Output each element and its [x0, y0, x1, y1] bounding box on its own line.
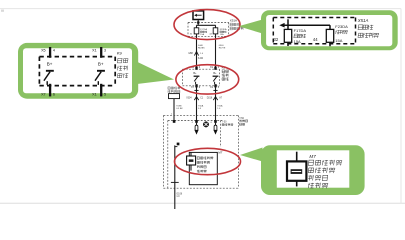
callout K9 left contact: [46, 70, 54, 72]
svg-text:SJ40: SJ40: [198, 58, 204, 60]
callout K9 pin X5/4: [49, 47, 51, 58]
svg-text:X7: X7: [41, 93, 46, 97]
page frame right rule: [400, 9, 402, 204]
pin square on fuse box top edge: [197, 21, 199, 23]
K9 bottom pin X7/6: [195, 84, 197, 87]
wire fuse F23DA down to K9: [215, 34, 217, 69]
svg-text:X5: X5: [41, 49, 46, 53]
svg-text:T-50: T-50: [222, 122, 227, 124]
headlamp switch label: [168, 86, 170, 88]
callout M7 solenoid core: [291, 169, 303, 174]
callout fuse bubble: [239, 20, 263, 34]
svg-text:RD/YE: RD/YE: [219, 48, 226, 50]
svg-text:B+: B+: [47, 61, 53, 66]
svg-text:5: 5: [104, 93, 106, 97]
svg-text:X1: X1: [92, 49, 97, 53]
connector D216/A7: [213, 97, 217, 101]
headlamp switch wire down: [173, 99, 175, 123]
M7 actuator solid box: [189, 152, 217, 184]
connector X304/C1: [194, 97, 198, 101]
dashed box K9 body control module: [183, 68, 220, 70]
right wire end arrow: [213, 130, 217, 135]
fuse F17DA: [194, 28, 199, 34]
K9 left relay contact: [194, 75, 200, 77]
callout K9 right contact: [97, 70, 105, 72]
svg-text:X51A: X51A: [357, 18, 369, 23]
svg-text:T-50: T-50: [239, 117, 244, 120]
right wire capsule connector: [215, 123, 217, 126]
callout M7 bubble: [240, 148, 263, 162]
highlight ellipse fuse area: [174, 10, 240, 40]
lamp symbol: [203, 122, 208, 127]
bus wire to both fuses: [196, 24, 215, 26]
ground wire down: [174, 145, 176, 209]
svg-text:B+: B+: [213, 72, 217, 75]
dashed box X51A instrument panel fuse block: [188, 22, 229, 24]
dashed box transmission assembly outer: [164, 114, 239, 116]
svg-text:F17DA: F17DA: [200, 28, 207, 31]
svg-text:F23DA: F23DA: [335, 24, 348, 29]
headlamp switch box: [169, 94, 180, 99]
highlight ellipse M7 area: [175, 148, 241, 174]
svg-text:15A: 15A: [335, 38, 342, 43]
wire from B+ box down: [197, 20, 199, 26]
svg-text:X51A: X51A: [230, 19, 237, 23]
left wire end arrow: [194, 130, 198, 135]
page frame bottom rule: [0, 202, 405, 204]
wire into fuse F17DA: [196, 25, 198, 28]
K9 top pin X1/3: [214, 67, 216, 70]
svg-text:32: 32: [274, 37, 279, 42]
K9 bottom pin X1/5: [214, 84, 216, 87]
callout fuse F17DA: [284, 29, 291, 42]
callout K9 dashed module box: [39, 56, 115, 58]
left wire capsule connector: [196, 123, 198, 126]
inline connector ticks: [194, 89, 198, 91]
svg-text:X304: X304: [186, 97, 192, 99]
svg-text:M7: M7: [309, 154, 316, 159]
pin on inner edge right: [214, 120, 217, 123]
svg-text:0.5 BK: 0.5 BK: [176, 108, 183, 110]
svg-text:GB8: GB8: [188, 53, 193, 55]
callout K9 pin X7/6: [49, 84, 51, 97]
svg-text:F23DA: F23DA: [220, 28, 227, 31]
svg-text:F17DA: F17DA: [294, 28, 307, 33]
svg-text:44: 44: [313, 37, 318, 42]
svg-text:K9: K9: [117, 50, 123, 55]
pin on inner edge left: [195, 120, 198, 123]
wire fuse F17DA down to K9: [196, 34, 198, 69]
M7 name text: [197, 156, 200, 158]
page corner mark: [1, 10, 4, 12]
svg-text:6: 6: [53, 93, 55, 97]
highlight ellipse K9 area: [176, 65, 239, 94]
svg-text:D216: D216: [207, 97, 213, 99]
fuse F23DA: [213, 28, 218, 34]
page frame top rule: [0, 8, 401, 10]
svg-text:3: 3: [104, 49, 106, 53]
svg-text:B+: B+: [193, 72, 197, 75]
wire into fuse F23DA: [215, 25, 217, 28]
wire K9 pin6 down: [196, 86, 198, 123]
svg-text:15A: 15A: [294, 39, 301, 44]
power feed B+ box: [193, 11, 204, 20]
callout fuse F23DA: [326, 29, 333, 42]
callout M7 solenoid box: [287, 161, 306, 180]
K9 right relay contact: [213, 75, 219, 77]
svg-text:M7: M7: [218, 151, 222, 155]
svg-text:T50A: T50A: [198, 104, 204, 107]
pin on inner edge wire a: [173, 120, 176, 123]
svg-text:X1: X1: [92, 93, 97, 97]
svg-text:B+: B+: [98, 61, 104, 66]
svg-text:T50A: T50A: [217, 104, 223, 107]
M7 wire through solenoid: [190, 152, 192, 170]
callout fuse dashed box: [273, 17, 355, 19]
callout bus wire with arrow: [283, 24, 330, 26]
callout M7 wire: [296, 152, 298, 187]
callout fuse F23DA drop: [329, 25, 331, 29]
callout K9 pin X1/5: [100, 84, 102, 97]
callout K9 pin X1/3: [100, 47, 102, 58]
svg-text:4: 4: [53, 49, 55, 53]
callout fuse F17DA stub: [287, 19, 289, 29]
dashed inner boundary: [168, 120, 222, 122]
callout K9 bubble: [137, 62, 174, 84]
splice tick: [171, 181, 179, 183]
splice GB8: [194, 51, 198, 55]
svg-text:G108: G108: [176, 193, 182, 195]
svg-text:RD/BK: RD/BK: [198, 48, 205, 50]
wire K9 pin5 down: [215, 86, 217, 123]
svg-text:15A: 15A: [200, 33, 204, 36]
node a marker: [177, 143, 180, 146]
callout M7 name lines: [308, 160, 314, 165]
svg-text:15A: 15A: [220, 33, 224, 36]
M7 solenoid square: [187, 156, 196, 165]
K9 top pin X5/4: [195, 67, 197, 70]
